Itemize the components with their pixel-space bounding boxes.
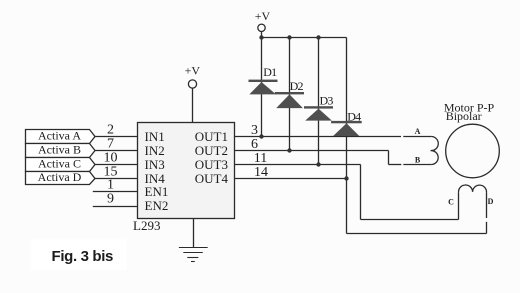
svg-text:EN1: EN1 bbox=[145, 184, 169, 199]
motor winding A-B bumps bbox=[431, 137, 439, 165]
svg-text:OUT2: OUT2 bbox=[195, 143, 228, 158]
svg-text:IN3: IN3 bbox=[145, 157, 165, 172]
svg-text:Activa D: Activa D bbox=[38, 170, 82, 184]
port flag Activa D bbox=[26, 172, 96, 185]
svg-text:+V: +V bbox=[185, 64, 201, 78]
svg-text:IN1: IN1 bbox=[145, 129, 165, 144]
fig label background box bbox=[31, 239, 126, 270]
diode D3 bbox=[304, 106, 333, 120]
power +V symbol top rail bbox=[258, 24, 265, 31]
svg-text:Activa A: Activa A bbox=[38, 128, 81, 142]
diode D1 bbox=[249, 80, 278, 95]
wire OUT2 (pin 6) bbox=[235, 150, 389, 152]
svg-text:B: B bbox=[415, 155, 421, 164]
ground bbox=[179, 248, 208, 262]
wire winding C lead bbox=[458, 192, 460, 219]
svg-text:14: 14 bbox=[254, 165, 268, 180]
svg-text:D3: D3 bbox=[320, 94, 334, 108]
wire EN2 bbox=[93, 206, 138, 208]
wire IN1 bbox=[95, 136, 138, 138]
svg-text:2: 2 bbox=[107, 123, 114, 138]
svg-text:D4: D4 bbox=[347, 109, 361, 123]
svg-text:1: 1 bbox=[107, 178, 114, 193]
wire EN1 bbox=[93, 191, 138, 193]
svg-text:C: C bbox=[448, 198, 454, 207]
svg-text:6: 6 bbox=[251, 137, 258, 152]
node D2-OUT2 bbox=[287, 148, 291, 152]
node rail-D2 bbox=[287, 35, 291, 39]
wire IN4 bbox=[95, 178, 138, 180]
svg-text:+V: +V bbox=[255, 9, 271, 23]
wire IN3 bbox=[95, 164, 138, 166]
diode D4 bbox=[331, 121, 362, 136]
motor body circle bbox=[446, 124, 500, 178]
wire winding D lead (with hop gap) bbox=[486, 192, 488, 218]
svg-text:D1: D1 bbox=[263, 65, 277, 79]
node D4-OUT4 bbox=[344, 176, 348, 180]
svg-text:10: 10 bbox=[104, 151, 118, 166]
wire rail drop to D4 bbox=[346, 38, 348, 179]
wire +V to rail bbox=[261, 32, 263, 38]
svg-text:L293: L293 bbox=[133, 218, 160, 233]
svg-text:OUT1: OUT1 bbox=[195, 129, 228, 144]
wire +V to IC bbox=[192, 88, 194, 122]
svg-text:3: 3 bbox=[251, 123, 258, 138]
port flag Activa C bbox=[26, 158, 96, 172]
wire OUT3 (pin 11) bbox=[235, 164, 361, 166]
wire D1 vertical bbox=[261, 38, 263, 137]
svg-text:9: 9 bbox=[107, 192, 114, 207]
svg-text:11: 11 bbox=[254, 151, 267, 166]
svg-text:D2: D2 bbox=[290, 79, 304, 93]
svg-text:Fig. 3 bis: Fig. 3 bis bbox=[52, 248, 114, 265]
svg-text:A: A bbox=[415, 127, 421, 136]
diode D2 bbox=[275, 92, 304, 108]
svg-text:D: D bbox=[488, 197, 494, 206]
svg-text:OUT3: OUT3 bbox=[195, 157, 228, 172]
wire OUT4 (pin 14) bbox=[235, 178, 347, 180]
port flag Activa A bbox=[26, 130, 96, 144]
node rail-D1 bbox=[259, 35, 263, 39]
port flag Activa B bbox=[26, 144, 96, 158]
node D1-OUT1 bbox=[259, 134, 263, 138]
svg-text:Activa C: Activa C bbox=[38, 156, 81, 170]
wire D2 vertical bbox=[289, 38, 291, 151]
power +V symbol above IC bbox=[188, 80, 196, 88]
motor winding C-D bumps bbox=[458, 185, 486, 192]
svg-text:EN2: EN2 bbox=[145, 198, 169, 213]
svg-text:7: 7 bbox=[107, 137, 114, 152]
IC U1 L293 body bbox=[138, 123, 235, 219]
node rail-D3 bbox=[316, 35, 320, 39]
wire top rail bbox=[262, 37, 347, 39]
svg-text:Bipolar: Bipolar bbox=[446, 109, 482, 123]
wire IC to ground bbox=[193, 219, 195, 248]
svg-text:OUT4: OUT4 bbox=[195, 171, 229, 186]
svg-text:Activa B: Activa B bbox=[38, 142, 81, 156]
junction dots bbox=[259, 35, 348, 180]
node D3-OUT3 bbox=[316, 162, 320, 166]
wire OUT1 (pin 3) bbox=[235, 136, 402, 138]
svg-text:IN2: IN2 bbox=[145, 143, 165, 158]
wire IN2 bbox=[95, 150, 138, 152]
wire D3 vertical bbox=[318, 38, 320, 165]
